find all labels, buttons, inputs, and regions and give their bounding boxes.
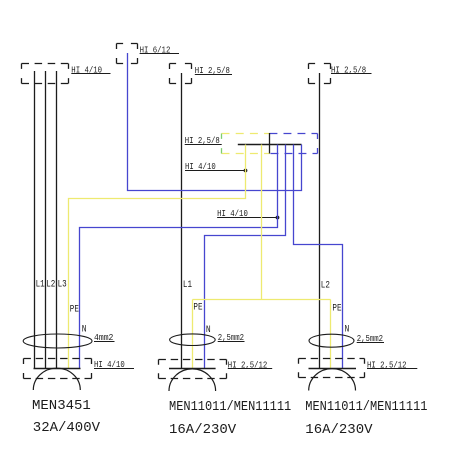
label HI 4/10 leader (yellow PE cable) — [185, 161, 247, 172]
wire PE drop (yellow, junction to PE bus) — [261, 145, 263, 300]
svg-text:L2: L2 — [321, 279, 330, 290]
svg-text:MEN3451: MEN3451 — [32, 398, 91, 414]
wire L3 (left circuit, black) — [56, 71, 58, 369]
wire L1 (left circuit, black) — [34, 71, 36, 369]
svg-text:HI 2,5/8: HI 2,5/8 — [331, 65, 366, 76]
wire L2 (right circuit, black) — [319, 73, 321, 369]
socket box HI 2,5/12 (right, dashed) — [299, 359, 365, 378]
svg-text:PE: PE — [193, 302, 202, 313]
cable marker ellipse (left, 4mm2) — [23, 334, 92, 348]
svg-text:L2: L2 — [46, 278, 55, 289]
value label 2,5mm2 (middle) — [218, 333, 245, 343]
socket terminal bar (middle) — [169, 368, 216, 370]
label HI 4/10 (left feed box) — [71, 65, 110, 76]
wire PE (yellow, to right socket) — [330, 300, 332, 369]
label HI 2,5/12 (middle socket box) — [228, 360, 272, 371]
cable marker ellipse (middle, 2,5mm2) — [170, 334, 216, 346]
svg-text:L1: L1 — [36, 278, 45, 289]
svg-text:MEN11011/MEN11111: MEN11011/MEN11111 — [305, 398, 427, 414]
label HI 6/12 — [140, 45, 179, 56]
wire L2 (left circuit, black) — [45, 71, 47, 369]
junction box HI (blue dashed) — [270, 134, 318, 154]
svg-text:32A/400V: 32A/400V — [33, 420, 101, 436]
value label 2,5mm2 (right) — [357, 334, 384, 344]
svg-text:PE: PE — [70, 304, 79, 315]
terminal box HI 2,5/8 (right top, dashed) — [309, 64, 331, 84]
svg-text:HI 6/12: HI 6/12 — [140, 45, 171, 56]
terminal box HI 6/12 (dashed) — [117, 44, 138, 64]
wire N (blue, junction to left socket) — [80, 145, 278, 369]
terminal box HI 2,5/8 (middle top, dashed) — [170, 64, 192, 84]
svg-text:PE: PE — [332, 303, 341, 314]
svg-text:L3: L3 — [58, 278, 67, 289]
terminal box HI 4/10 (left feed, dashed) — [22, 64, 69, 84]
wire PE (yellow, to middle socket) — [192, 300, 194, 369]
socket box HI 2,5/12 (middle, dashed) — [159, 360, 227, 379]
svg-text:N: N — [206, 323, 211, 335]
wire PE (yellow, junction to left socket) — [69, 145, 246, 369]
junction terminal bar (black) — [238, 144, 302, 146]
svg-text:16A/230V: 16A/230V — [169, 422, 237, 438]
value label 4mm2 — [94, 332, 115, 343]
wire N (blue, junction to middle socket) — [205, 145, 286, 369]
label HI 2,5/12 (right socket box) — [367, 360, 417, 371]
wire PE bus (yellow, middle to right socket) — [193, 299, 331, 301]
wire L1 (middle circuit, black) — [181, 73, 183, 369]
svg-text:N: N — [82, 322, 87, 334]
socket arc (right outlet) — [309, 369, 356, 391]
label HI 4/10 (left socket box) — [94, 359, 134, 370]
junction box HI (yellow dashed, green left edge) — [222, 134, 270, 154]
socket terminal bar (right) — [309, 368, 357, 370]
wire N feed (blue, from HI 6/12 to junction bar) — [128, 53, 302, 191]
socket box HI 4/10 (left, dashed) — [24, 359, 92, 379]
label HI 2,5/8 (middle top box) — [195, 65, 232, 76]
socket arc (middle outlet) — [169, 369, 216, 391]
svg-text:N: N — [345, 322, 350, 334]
wire N (blue, junction to right socket) — [294, 145, 343, 369]
label HI 4/10 leader (blue N cable) — [217, 208, 279, 219]
socket arc (left outlet) — [33, 368, 80, 390]
cable marker ellipse (right, 2,5mm2) — [309, 334, 354, 347]
junction box left edge (black) — [269, 133, 271, 154]
svg-text:HI 4/10: HI 4/10 — [71, 65, 102, 76]
socket terminal bar (left) — [34, 368, 81, 370]
label HI 2,5/8 (right top box) — [331, 65, 372, 76]
svg-text:MEN11011/MEN11111: MEN11011/MEN11111 — [169, 398, 291, 414]
svg-text:16A/230V: 16A/230V — [305, 422, 373, 438]
label HI 2,5/8 (junction cable) — [185, 136, 222, 147]
svg-text:L1: L1 — [183, 279, 192, 290]
